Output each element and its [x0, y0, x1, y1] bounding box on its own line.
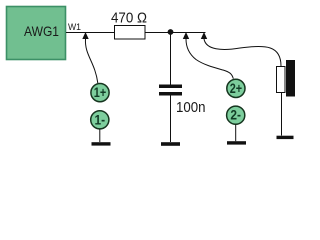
- speaker magnet plate: [286, 60, 295, 97]
- svg-text:100n: 100n: [176, 99, 206, 116]
- svg-text:2+: 2+: [230, 80, 242, 96]
- ground bar under 2-: [227, 141, 246, 144]
- ground bar under 1-: [92, 142, 111, 145]
- wire: 2- to ground: [235, 125, 237, 142]
- svg-text:470 Ω: 470 Ω: [111, 10, 147, 27]
- flywire: W1 arrow to scope 1+: [85, 39, 97, 83]
- svg-text:1+: 1+: [94, 84, 106, 100]
- AWG1 generator block: [7, 7, 66, 60]
- resistor 470 ohm: [111, 10, 147, 40]
- wire: 1- to ground: [99, 129, 101, 142]
- ground bar under speaker: [277, 136, 294, 139]
- ground bar under capacitor: [161, 142, 180, 146]
- wire: AWG1 output to resistor: [66, 32, 114, 34]
- svg-text:1-: 1-: [95, 111, 106, 127]
- wire: node down to capacitor: [170, 33, 172, 85]
- scope probe 2-: [227, 106, 245, 124]
- svg-text:AWG1: AWG1: [24, 23, 59, 39]
- probe arrow at node (scope 2+): [183, 32, 189, 39]
- node junction dot: [168, 29, 174, 35]
- scope probe 2+: [227, 79, 245, 97]
- capacitor 100n bottom plate: [159, 92, 182, 96]
- svg-text:2-: 2-: [230, 107, 241, 123]
- flywire: node arrow to speaker: [204, 39, 281, 66]
- scope probe 1+: [91, 84, 109, 102]
- speaker body: [277, 67, 286, 93]
- flywire: node arrow to scope 2+: [186, 39, 233, 79]
- scope probe 1-: [91, 111, 109, 129]
- probe arrow at W1 wire: [82, 32, 88, 39]
- wire: capacitor to ground: [170, 96, 172, 143]
- wire: resistor to node: [145, 32, 206, 34]
- probe arrow at node (speaker): [201, 32, 207, 39]
- capacitor 100n top plate: [159, 85, 182, 89]
- svg-text:W1: W1: [68, 22, 81, 32]
- wire: speaker to ground: [281, 93, 283, 136]
